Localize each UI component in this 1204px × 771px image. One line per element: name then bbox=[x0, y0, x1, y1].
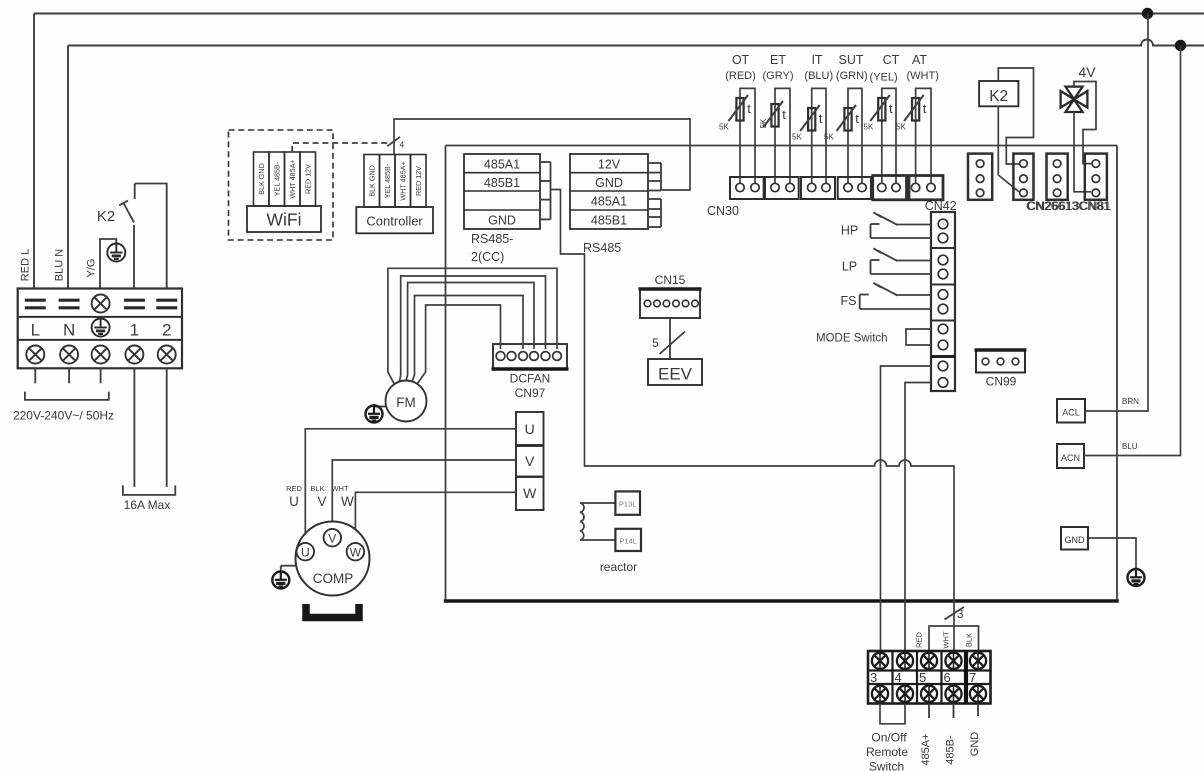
label BLU N bbox=[54, 249, 66, 281]
label Y/G bbox=[86, 259, 98, 278]
svg-text:V: V bbox=[317, 494, 326, 509]
svg-text:RED 12V: RED 12V bbox=[303, 164, 312, 194]
mount bracket under COMP bbox=[306, 604, 359, 618]
wire - N stub below bbox=[68, 368, 70, 383]
wire - terminal 1 load wire bbox=[133, 368, 135, 487]
svg-text:W: W bbox=[523, 485, 537, 501]
svg-text:t: t bbox=[819, 111, 823, 126]
ground - COMP earth bbox=[272, 566, 296, 589]
connector CN99 bbox=[975, 350, 1027, 389]
svg-text:5K: 5K bbox=[824, 133, 834, 142]
svg-text:CN97: CN97 bbox=[515, 386, 546, 400]
label reactor bbox=[600, 560, 637, 574]
label 485A+ bbox=[920, 733, 932, 765]
svg-text:HP: HP bbox=[841, 224, 858, 238]
svg-text:2(CC): 2(CC) bbox=[471, 250, 504, 264]
compressor COMP bbox=[296, 522, 370, 596]
svg-text:L: L bbox=[31, 321, 40, 340]
svg-text:Controller: Controller bbox=[366, 214, 423, 229]
motor FM fan motor bbox=[386, 381, 427, 422]
label BLK (terminal 7) bbox=[965, 633, 974, 647]
svg-text:CN15: CN15 bbox=[655, 273, 686, 287]
svg-text:CN42: CN42 bbox=[925, 199, 957, 213]
svg-text:ACN: ACN bbox=[1061, 453, 1080, 463]
sensor ET (GRY) thermistor 5K bbox=[759, 53, 793, 184]
relay contact K2 (left) bbox=[97, 184, 167, 289]
svg-text:IT: IT bbox=[811, 53, 822, 67]
svg-text:7: 7 bbox=[969, 670, 976, 685]
connector - Controller 4-pin header bbox=[364, 155, 426, 208]
terminal GND bbox=[1061, 527, 1088, 550]
wire - COMP U phase bbox=[305, 429, 516, 543]
svg-text:YEL 485B-: YEL 485B- bbox=[272, 161, 281, 196]
svg-text:t: t bbox=[855, 111, 859, 126]
svg-text:GND: GND bbox=[488, 214, 516, 228]
ground - FM earth bbox=[366, 404, 387, 423]
svg-text:MODE Switch: MODE Switch bbox=[816, 333, 888, 345]
svg-text:RS485-: RS485- bbox=[471, 232, 513, 246]
wire - terminal 2 load wire bbox=[166, 368, 168, 487]
svg-text:2: 2 bbox=[162, 321, 171, 340]
svg-text:OT: OT bbox=[732, 53, 750, 67]
svg-text:GND: GND bbox=[1065, 535, 1086, 545]
svg-text:t: t bbox=[923, 101, 927, 116]
label On/Off Remote Switch bbox=[866, 731, 908, 771]
connector CN81 bbox=[1085, 154, 1107, 200]
svg-text:P13L: P13L bbox=[619, 500, 637, 509]
connector CN66 bbox=[1013, 154, 1033, 200]
svg-text:RED: RED bbox=[915, 632, 924, 648]
svg-text:BLU N: BLU N bbox=[54, 249, 66, 281]
connector DCFAN CN97 bbox=[492, 344, 569, 400]
wire - fan motor lead 4 bbox=[412, 296, 523, 382]
terminal P14L bbox=[615, 529, 641, 551]
sensor SUT (GRN) thermistor 5K bbox=[824, 53, 868, 184]
svg-text:BLU: BLU bbox=[1122, 442, 1138, 451]
svg-text:COMP: COMP bbox=[313, 571, 354, 586]
connector CN15 bbox=[639, 273, 702, 318]
wire - Y/G with earth stub bbox=[100, 239, 116, 289]
wire - top bus line 2 (neutral) with hop over BRN wire bbox=[68, 40, 1204, 46]
svg-text:5K: 5K bbox=[719, 123, 729, 132]
label 485B- bbox=[945, 735, 957, 765]
svg-text:BLK: BLK bbox=[965, 633, 974, 647]
svg-text:(GRY): (GRY) bbox=[763, 70, 794, 82]
svg-text:485B1: 485B1 bbox=[484, 176, 520, 190]
connector RS485 bbox=[570, 154, 661, 255]
label RED BLK WHT wire colors bbox=[286, 484, 349, 493]
svg-text:5K: 5K bbox=[896, 123, 906, 132]
svg-text:5: 5 bbox=[919, 670, 926, 685]
svg-text:K2: K2 bbox=[97, 208, 115, 225]
svg-text:RS485: RS485 bbox=[583, 241, 621, 255]
svg-text:1: 1 bbox=[130, 321, 139, 340]
terminal ACN bbox=[1057, 444, 1084, 468]
svg-text:(RED): (RED) bbox=[725, 70, 756, 82]
wire - RED L vertical bbox=[33, 14, 35, 289]
svg-text:(GRN): (GRN) bbox=[836, 70, 868, 82]
svg-text:BLK GND: BLK GND bbox=[367, 165, 376, 197]
wire - 4V coil to CN81 pin1 bbox=[1074, 82, 1096, 164]
svg-text:CN99: CN99 bbox=[986, 375, 1017, 389]
svg-text:5K: 5K bbox=[864, 123, 874, 132]
svg-text:3: 3 bbox=[870, 670, 877, 685]
svg-text:(YEL): (YEL) bbox=[870, 72, 898, 84]
terminal W (inverter output) bbox=[516, 477, 544, 510]
svg-text:WHT: WHT bbox=[331, 484, 348, 493]
wire - terminal 5 stub bbox=[928, 704, 930, 719]
ground - chassis earth bbox=[1128, 569, 1145, 586]
connector CN30 sensor input row bbox=[730, 176, 943, 200]
wire - On/Off switch bracket terminals 3-4 bbox=[880, 704, 905, 724]
connector - WiFi 4-pin header bbox=[254, 152, 316, 206]
relay K2 (board) bbox=[979, 81, 1018, 106]
svg-text:4: 4 bbox=[895, 670, 902, 685]
svg-text:(BLU): (BLU) bbox=[804, 70, 833, 82]
label BRN bbox=[1122, 397, 1139, 406]
svg-text:V: V bbox=[525, 453, 535, 469]
svg-text:GND: GND bbox=[969, 732, 981, 757]
label U V W phase letters bbox=[289, 494, 354, 509]
terminal U (inverter output) bbox=[516, 412, 544, 445]
svg-text:LP: LP bbox=[842, 260, 857, 274]
connector RS485-2(CC) bbox=[464, 154, 551, 264]
wire - CN42 pin10 to terminal 4 bbox=[905, 383, 931, 652]
svg-text:K2: K2 bbox=[989, 88, 1008, 105]
terminal ACL bbox=[1057, 399, 1085, 423]
wire - ACL to BRN bus bbox=[1085, 14, 1148, 412]
svg-text:485B1: 485B1 bbox=[591, 214, 627, 228]
svg-text:On/Off: On/Off bbox=[871, 731, 907, 745]
terminal block TB1 (L N PE 1 2) bbox=[18, 289, 182, 369]
svg-text:Remote: Remote bbox=[866, 745, 908, 759]
svg-text:U: U bbox=[289, 494, 299, 509]
wire - L stub below bbox=[34, 368, 36, 383]
svg-text:t: t bbox=[747, 101, 751, 116]
inductor reactor coil bbox=[580, 503, 615, 540]
svg-text:WiFi: WiFi bbox=[267, 210, 302, 230]
svg-text:WHT: WHT bbox=[942, 631, 951, 648]
svg-text:W: W bbox=[350, 546, 362, 560]
svg-text:EEV: EEV bbox=[658, 365, 693, 384]
switch LP low pressure bbox=[842, 248, 931, 274]
svg-text:YEL 485B-: YEL 485B- bbox=[383, 163, 392, 198]
label BLU bbox=[1122, 442, 1138, 451]
svg-text:BLK GND: BLK GND bbox=[257, 163, 266, 195]
svg-text:485A1: 485A1 bbox=[484, 158, 520, 172]
svg-text:W: W bbox=[341, 494, 354, 509]
node - junction dot line1/BRN bbox=[1142, 8, 1152, 18]
wire - controller bundle to RS485 port bbox=[387, 119, 690, 190]
board outline - main control PCB bbox=[444, 146, 1119, 602]
connector CN-aux2 bbox=[1047, 154, 1068, 200]
wire - CN15 to EEV with 5-wire slash bbox=[652, 318, 685, 359]
wire - K2 to CN66 pin1 bbox=[998, 68, 1033, 164]
connector CN42 vertical header bbox=[931, 212, 955, 391]
svg-text:BLK: BLK bbox=[310, 484, 324, 493]
node - junction dot line2/BLU bbox=[1175, 40, 1185, 50]
wire - terminal 7 stub bbox=[977, 704, 979, 717]
svg-text:3: 3 bbox=[957, 609, 963, 621]
svg-text:220V-240V~/ 50Hz: 220V-240V~/ 50Hz bbox=[13, 409, 114, 423]
svg-text:ACL: ACL bbox=[1062, 408, 1080, 418]
svg-text:Y/G: Y/G bbox=[86, 259, 98, 278]
svg-text:P14L: P14L bbox=[619, 537, 637, 546]
module WiFi (dashed enclosure) bbox=[229, 130, 334, 240]
module WiFi box bbox=[247, 206, 321, 232]
terminal block remote (3 4 5 6 7) bbox=[868, 651, 991, 704]
terminal P13L bbox=[615, 491, 640, 514]
svg-text:FS: FS bbox=[841, 294, 857, 308]
terminal V (inverter output) bbox=[516, 446, 544, 477]
sensor IT (BLU) thermistor 5K bbox=[792, 53, 833, 184]
svg-text:485A+: 485A+ bbox=[920, 733, 932, 765]
wire - fan motor lead 5 (innermost) bbox=[418, 305, 501, 384]
svg-text:CT: CT bbox=[883, 53, 900, 67]
wire - RS485-2(CC) to remote terminal bundle with hops bbox=[551, 190, 955, 652]
wire - K2 to CN66 pin3 bbox=[998, 106, 1019, 192]
wire - top bus line 1 (live) bbox=[34, 13, 1204, 15]
svg-text:CN30: CN30 bbox=[707, 204, 739, 218]
svg-text:FM: FM bbox=[396, 395, 416, 410]
sensor OT (RED) thermistor 5K bbox=[719, 53, 756, 184]
svg-text:U: U bbox=[525, 421, 535, 437]
wire - fan motor lead 3 bbox=[406, 283, 534, 381]
svg-text:reactor: reactor bbox=[600, 560, 637, 574]
ground - Y/G earth symbol bbox=[107, 244, 125, 262]
label 3-wire bundle slash bbox=[945, 607, 965, 621]
svg-text:Switch: Switch bbox=[869, 760, 904, 771]
svg-text:AT: AT bbox=[912, 53, 927, 67]
wire - WiFi to controller bundle (dashed) bbox=[292, 143, 392, 152]
svg-text:WHT 485A+: WHT 485A+ bbox=[398, 161, 407, 200]
svg-text:t: t bbox=[889, 101, 893, 116]
svg-text:SUT: SUT bbox=[839, 53, 864, 67]
label RED L bbox=[20, 249, 32, 281]
sensor AT (WHT) thermistor 5K bbox=[896, 53, 939, 184]
wire - COMP W phase bbox=[355, 492, 516, 543]
label CN66/CN13/CN21/CN81 overlapped bbox=[1026, 201, 1111, 213]
svg-text:U: U bbox=[301, 546, 310, 560]
svg-text:DCFAN: DCFAN bbox=[510, 372, 551, 386]
wire - terminal 6 stub bbox=[953, 704, 955, 719]
label WHT (terminal 6) bbox=[942, 631, 951, 648]
svg-text:485A1: 485A1 bbox=[591, 195, 627, 209]
label RED (terminal 5) bbox=[915, 632, 924, 648]
wire - PE stub below bbox=[100, 368, 102, 383]
sensor CT (YEL) thermistor 5K bbox=[864, 53, 900, 184]
label GND bbox=[969, 732, 981, 757]
switch FS flow switch bbox=[841, 283, 931, 309]
svg-text:RED: RED bbox=[286, 484, 302, 493]
svg-text:4: 4 bbox=[400, 140, 405, 150]
wire - CN42 pin9 to terminal 3 bbox=[881, 366, 932, 651]
svg-text:4V: 4V bbox=[1078, 64, 1096, 80]
svg-text:5: 5 bbox=[652, 336, 659, 350]
label 16A Max with bracket bbox=[123, 485, 175, 512]
svg-text:WHT 485A+: WHT 485A+ bbox=[288, 159, 297, 198]
label CN42 bbox=[925, 199, 957, 213]
wire - bundle bracket to terminals 5,6,7 bbox=[929, 626, 979, 651]
valve 4V four-way valve bbox=[1061, 64, 1097, 112]
svg-text:ET: ET bbox=[770, 53, 786, 67]
svg-text:N: N bbox=[63, 321, 75, 340]
svg-text:(WHT): (WHT) bbox=[907, 70, 939, 82]
svg-text:V: V bbox=[328, 532, 336, 546]
svg-text:6: 6 bbox=[944, 670, 951, 685]
switch MODE Switch bbox=[816, 329, 931, 345]
wire - COMP V phase bbox=[332, 460, 516, 529]
svg-text:12V: 12V bbox=[598, 158, 621, 172]
wire - GND to earth bbox=[1088, 538, 1136, 569]
svg-text:5K: 5K bbox=[759, 118, 768, 128]
wire - fan motor lead 1 (outermost) bbox=[388, 268, 557, 384]
wire - 4V coil to CN81 pin3 bbox=[1074, 112, 1091, 192]
svg-text:BRN: BRN bbox=[1122, 397, 1139, 406]
module Controller box bbox=[356, 207, 433, 233]
svg-text:16A Max: 16A Max bbox=[124, 498, 171, 512]
svg-text:CN26613CN81: CN26613CN81 bbox=[1027, 201, 1111, 213]
wire - fan motor lead 2 bbox=[400, 276, 546, 382]
switch HP high pressure bbox=[841, 212, 931, 238]
svg-text:5K: 5K bbox=[792, 133, 802, 142]
connector CN-aux1 bbox=[968, 154, 992, 200]
actuator EEV electronic expansion valve bbox=[648, 359, 702, 385]
label CN30 bbox=[707, 204, 739, 218]
label 220V-240V / 50Hz with bracket bbox=[13, 392, 114, 423]
wire - BLU N vertical bbox=[67, 46, 69, 289]
svg-text:t: t bbox=[782, 107, 786, 122]
wire - ACN to BLU bus bbox=[1084, 46, 1181, 456]
svg-text:RED L: RED L bbox=[20, 249, 32, 281]
svg-text:485B-: 485B- bbox=[945, 735, 957, 765]
svg-text:GND: GND bbox=[595, 176, 623, 190]
svg-text:RED 12V: RED 12V bbox=[414, 166, 423, 196]
